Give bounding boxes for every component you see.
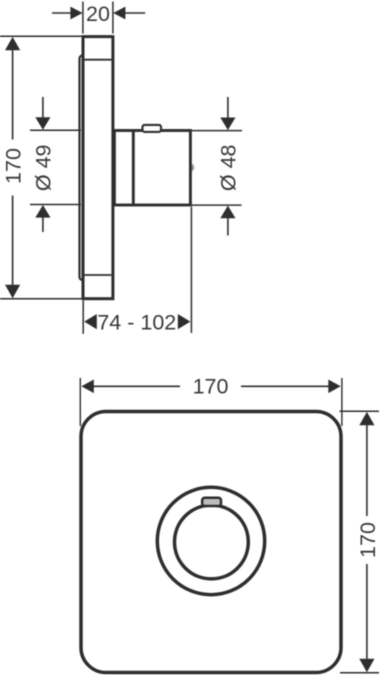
handle outer ring (front view) <box>157 487 264 594</box>
dim diameter 49 top arrow stem <box>42 97 44 119</box>
dim diameter 48 extension line top <box>192 130 243 132</box>
dim 170 left extension line bottom <box>0 298 85 300</box>
svg-text:Ø 48: Ø 48 <box>217 144 241 191</box>
dim 170 top line right <box>241 385 329 387</box>
svg-text:Ø 49: Ø 49 <box>31 144 55 191</box>
handle body (side view) <box>114 131 190 206</box>
dim 170 left arrow up <box>5 37 20 50</box>
handle face divider <box>132 131 135 206</box>
dim diameter 48 bottom arrow <box>220 206 235 219</box>
dim 170 top extension line right <box>341 378 343 426</box>
dim 74-102 arrow left <box>84 314 97 329</box>
handle grip tab (side view) <box>143 125 162 132</box>
grip tab (front view) <box>202 498 221 506</box>
dim diameter 49 bottom arrow <box>35 205 50 218</box>
dim diameter 49 extension line top <box>30 129 81 131</box>
dim 170 right line lower <box>366 564 368 661</box>
svg-text:20: 20 <box>86 2 110 26</box>
dim diameter 49 top arrow <box>35 117 50 130</box>
dim 20 extension line right <box>112 2 114 34</box>
dim 170 right extension line bottom <box>340 672 379 674</box>
escutcheon plate (side view) <box>83 37 113 299</box>
dim 170 top line left <box>93 385 180 387</box>
dim diameter 48 extension line bottom <box>192 204 242 206</box>
dim diameter 49 bottom arrow stem <box>42 216 44 232</box>
dim 170 top extension line left <box>79 378 81 426</box>
dim 170 left line lower <box>12 196 14 288</box>
dim 74-102 arrow right <box>178 314 191 329</box>
dim diameter 48 bottom arrow stem <box>227 217 229 236</box>
dim 170 left line upper <box>12 48 14 140</box>
svg-text:74 - 102: 74 - 102 <box>97 310 176 334</box>
handle inner ring (front view) <box>175 505 249 579</box>
dim 170 left arrow down <box>5 285 20 298</box>
dim 20 arrow left <box>70 7 82 20</box>
dim 20 stem left <box>52 12 72 14</box>
dim diameter 48 top arrow <box>220 118 235 131</box>
dim 74-102 extension line right <box>190 207 192 333</box>
plate inner edge bottom <box>85 274 112 276</box>
dim 170 top left arrow <box>81 380 93 394</box>
dim 170 left extension line top <box>0 35 85 37</box>
dim 170 top right arrow <box>328 380 340 394</box>
dim 20 extension line left <box>82 2 84 34</box>
plate inner edge top <box>85 59 112 61</box>
svg-text:170: 170 <box>356 522 380 558</box>
dim diameter 49 extension line bottom <box>30 204 81 206</box>
dim 74-102 extension line left <box>82 301 84 334</box>
svg-text:170: 170 <box>2 148 26 184</box>
svg-text:170: 170 <box>193 374 229 398</box>
dim 170 right extension line top <box>340 410 380 412</box>
button seam bump (side view) <box>186 163 195 172</box>
dim diameter 48 top arrow stem <box>227 97 229 119</box>
dim 170 right arrow down <box>359 659 374 672</box>
faceplate (front view) <box>81 412 341 673</box>
dim 20 arrow right <box>113 7 125 20</box>
dim 20 stem right <box>124 12 145 14</box>
escutcheon lip (side view) <box>80 56 86 281</box>
dim 170 right line upper <box>366 423 368 516</box>
dim 170 right arrow up <box>359 412 374 425</box>
